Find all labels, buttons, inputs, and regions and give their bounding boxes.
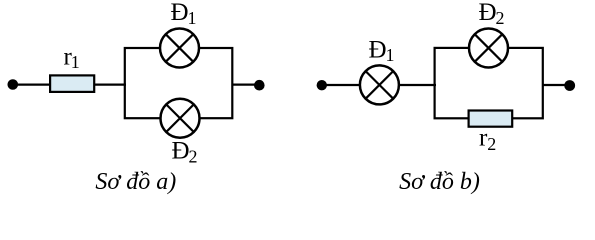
terminal dot right (circuit a) — [254, 80, 265, 91]
terminal dot left (circuit b) — [317, 80, 327, 90]
wire: parallel loop (b) to right terminal — [543, 84, 569, 86]
wire: resistor r1 to parallel loop (a) — [95, 83, 127, 85]
label Đ2 (circuit a) — [172, 138, 198, 167]
svg-text:Đ: Đ — [479, 0, 497, 26]
parallel loop wires (circuit b) — [435, 48, 543, 118]
label r1 — [64, 43, 80, 72]
terminal dot right (circuit b) — [564, 80, 575, 91]
wire: left terminal to resistor r1 — [13, 83, 51, 85]
svg-text:Đ: Đ — [369, 36, 387, 63]
caption Sơ đồ a) — [95, 169, 176, 195]
label r2 — [479, 125, 496, 154]
caption Sơ đồ b) — [399, 169, 480, 195]
svg-text:Sơ đồ b): Sơ đồ b) — [399, 169, 480, 195]
label Đ1 (circuit a) — [171, 0, 197, 28]
svg-text:1: 1 — [71, 52, 80, 72]
svg-text:Đ: Đ — [171, 0, 189, 26]
parallel loop wires (circuit a) — [125, 48, 233, 118]
resistor r1 — [50, 75, 94, 92]
svg-text:1: 1 — [188, 8, 197, 28]
svg-text:1: 1 — [386, 45, 395, 65]
svg-text:2: 2 — [496, 8, 505, 28]
wire: lamp Đ1 (b) to parallel loop (b) — [399, 84, 436, 86]
resistor r2 — [469, 111, 513, 127]
svg-text:2: 2 — [189, 146, 198, 166]
svg-text:Sơ đồ a): Sơ đồ a) — [95, 169, 176, 195]
wire: parallel loop (a) to right terminal — [232, 83, 259, 85]
lamp Đ2 (circuit a) — [161, 99, 200, 138]
lamp Đ1 (circuit b, series) — [360, 65, 399, 104]
wire: left terminal to lamp Đ1 (b) — [322, 84, 360, 86]
lamp Đ1 (circuit a) — [160, 29, 199, 68]
label Đ1 (circuit b) — [369, 36, 395, 65]
label Đ2 (circuit b) — [479, 0, 505, 28]
terminal dot left (circuit a) — [8, 79, 19, 90]
svg-text:2: 2 — [487, 134, 496, 154]
svg-text:Đ: Đ — [172, 138, 190, 165]
lamp Đ2 (circuit b) — [469, 29, 508, 68]
